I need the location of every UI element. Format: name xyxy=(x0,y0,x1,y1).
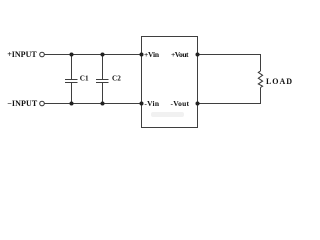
svg-text:LOAD: LOAD xyxy=(266,77,292,86)
svg-text:−INPUT: −INPUT xyxy=(7,99,38,108)
wire bottom input xyxy=(44,103,141,105)
terminal +INPUT xyxy=(40,52,45,57)
pin -Vout xyxy=(196,102,200,106)
node C2 bottom xyxy=(101,102,105,106)
capacitor C2 xyxy=(96,55,109,104)
pin +Vin xyxy=(140,53,144,57)
resistor LOAD xyxy=(258,71,262,88)
svg-text:C2: C2 xyxy=(112,75,121,83)
svg-text:+INPUT: +INPUT xyxy=(7,50,37,59)
wire load right top xyxy=(260,55,262,72)
svg-text:C1: C1 xyxy=(80,75,89,83)
node C1 top xyxy=(70,53,74,57)
capacitor C1 xyxy=(65,55,78,104)
junction dots xyxy=(70,53,200,106)
svg-text:+Vout: +Vout xyxy=(171,50,189,59)
node C1 bottom xyxy=(70,102,74,106)
wire load right bottom xyxy=(260,88,262,104)
converter box U1 xyxy=(142,37,198,128)
svg-text:-Vin: -Vin xyxy=(144,99,159,108)
node C2 top xyxy=(101,53,105,57)
svg-text:+Vin: +Vin xyxy=(144,50,160,59)
pin -Vin xyxy=(140,102,144,106)
svg-text:-Vout: -Vout xyxy=(171,99,190,108)
wire -Vout to load xyxy=(198,103,262,105)
pin +Vout xyxy=(196,53,200,57)
wire top input xyxy=(44,54,141,56)
wire +Vout to load xyxy=(198,54,262,56)
watermark ghost xyxy=(151,112,184,117)
terminal -INPUT xyxy=(40,101,45,106)
